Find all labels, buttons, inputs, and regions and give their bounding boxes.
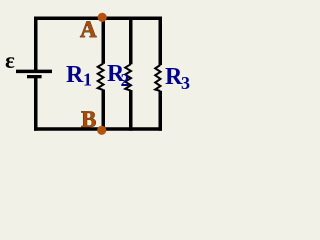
svg-text:1: 1: [83, 70, 92, 90]
svg-text:3: 3: [181, 73, 190, 93]
svg-text:2: 2: [121, 70, 130, 90]
svg-text:A: A: [80, 17, 97, 42]
svg-text:R: R: [66, 62, 84, 88]
svg-text:ε: ε: [5, 48, 15, 73]
svg-text:B: B: [81, 107, 96, 132]
